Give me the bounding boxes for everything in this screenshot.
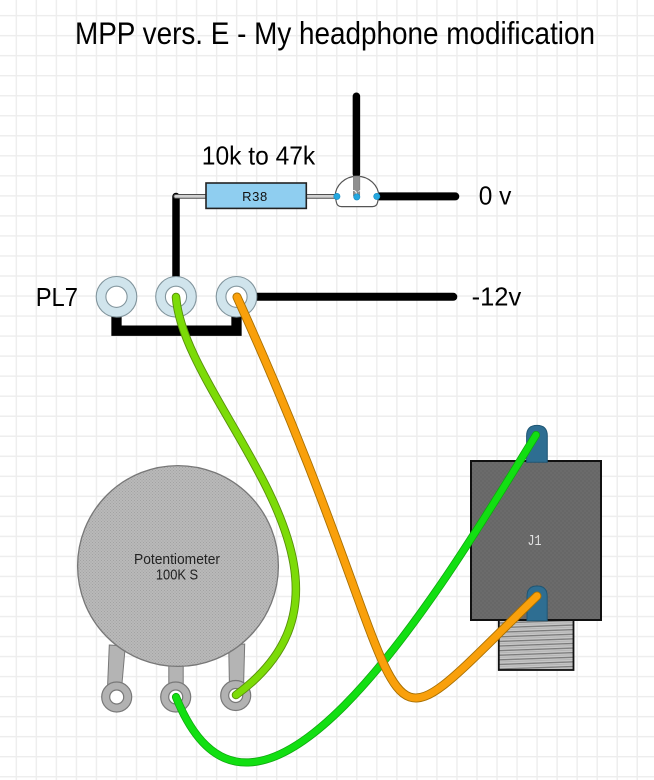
svg-text:0 v: 0 v bbox=[479, 180, 512, 210]
potentiometer leg 1 bbox=[108, 645, 126, 689]
wire: -12v line from pad 3 bbox=[237, 293, 453, 301]
resistor R38 body bbox=[206, 183, 306, 208]
potentiometer lug 1 bbox=[102, 682, 132, 712]
trimmer dome body bbox=[335, 176, 379, 206]
connector PL7 pad 2 bbox=[156, 277, 197, 318]
connector PL7 pad 1 bbox=[96, 277, 137, 318]
potentiometer lug 2 bbox=[161, 682, 191, 712]
wire: 0 v line from trimmer right pin bbox=[379, 192, 455, 200]
svg-text:R38: R38 bbox=[242, 189, 268, 204]
jack J1 bottom pin bbox=[527, 586, 547, 621]
connector PL7 pad 3 bbox=[216, 277, 257, 318]
svg-text:-12v: -12v bbox=[472, 282, 522, 312]
potentiometer body bbox=[78, 466, 279, 667]
trimmer pin dot left bbox=[334, 193, 340, 199]
svg-text:PL7: PL7 bbox=[36, 282, 78, 312]
svg-text:Potentiometer: Potentiometer bbox=[134, 551, 220, 568]
trimmer pin dot middle bbox=[354, 194, 360, 200]
svg-text:J1: J1 bbox=[528, 533, 542, 550]
potentiometer leg 3 bbox=[229, 644, 245, 689]
wire: vertical from resistor left lead down to pad 2 bbox=[172, 197, 180, 298]
potentiometer lug 3 bbox=[221, 681, 251, 711]
wire: light green from pad 2 to pot lug 3 bbox=[176, 297, 296, 695]
trimmer wiper stub bbox=[353, 176, 360, 196]
jack J1 body bbox=[471, 461, 601, 620]
potentiometer leg 2 bbox=[169, 655, 183, 697]
svg-text:MPP vers. E - My headphone mod: MPP vers. E - My headphone modification bbox=[75, 15, 595, 51]
potentiometer value label bbox=[134, 551, 220, 584]
wire: elbow from pad 1 down across to pad 3 bbox=[117, 298, 237, 331]
trimmer pin dot right bbox=[374, 193, 380, 199]
svg-text:10k to 47k: 10k to 47k bbox=[202, 141, 316, 171]
jack J1 top pin bbox=[527, 425, 548, 462]
svg-text:100K S: 100K S bbox=[156, 567, 198, 584]
wire: green from pot lug 2 to jack top pin bbox=[176, 435, 536, 762]
resistor R38 left lead bbox=[174, 195, 207, 199]
wire: orange from pad 3 to jack bottom pin bbox=[237, 297, 537, 698]
jack J1 thread block bbox=[499, 620, 574, 670]
resistor R38 right lead bbox=[305, 195, 338, 199]
wire: vertical from top into trimmer bbox=[353, 96, 361, 174]
